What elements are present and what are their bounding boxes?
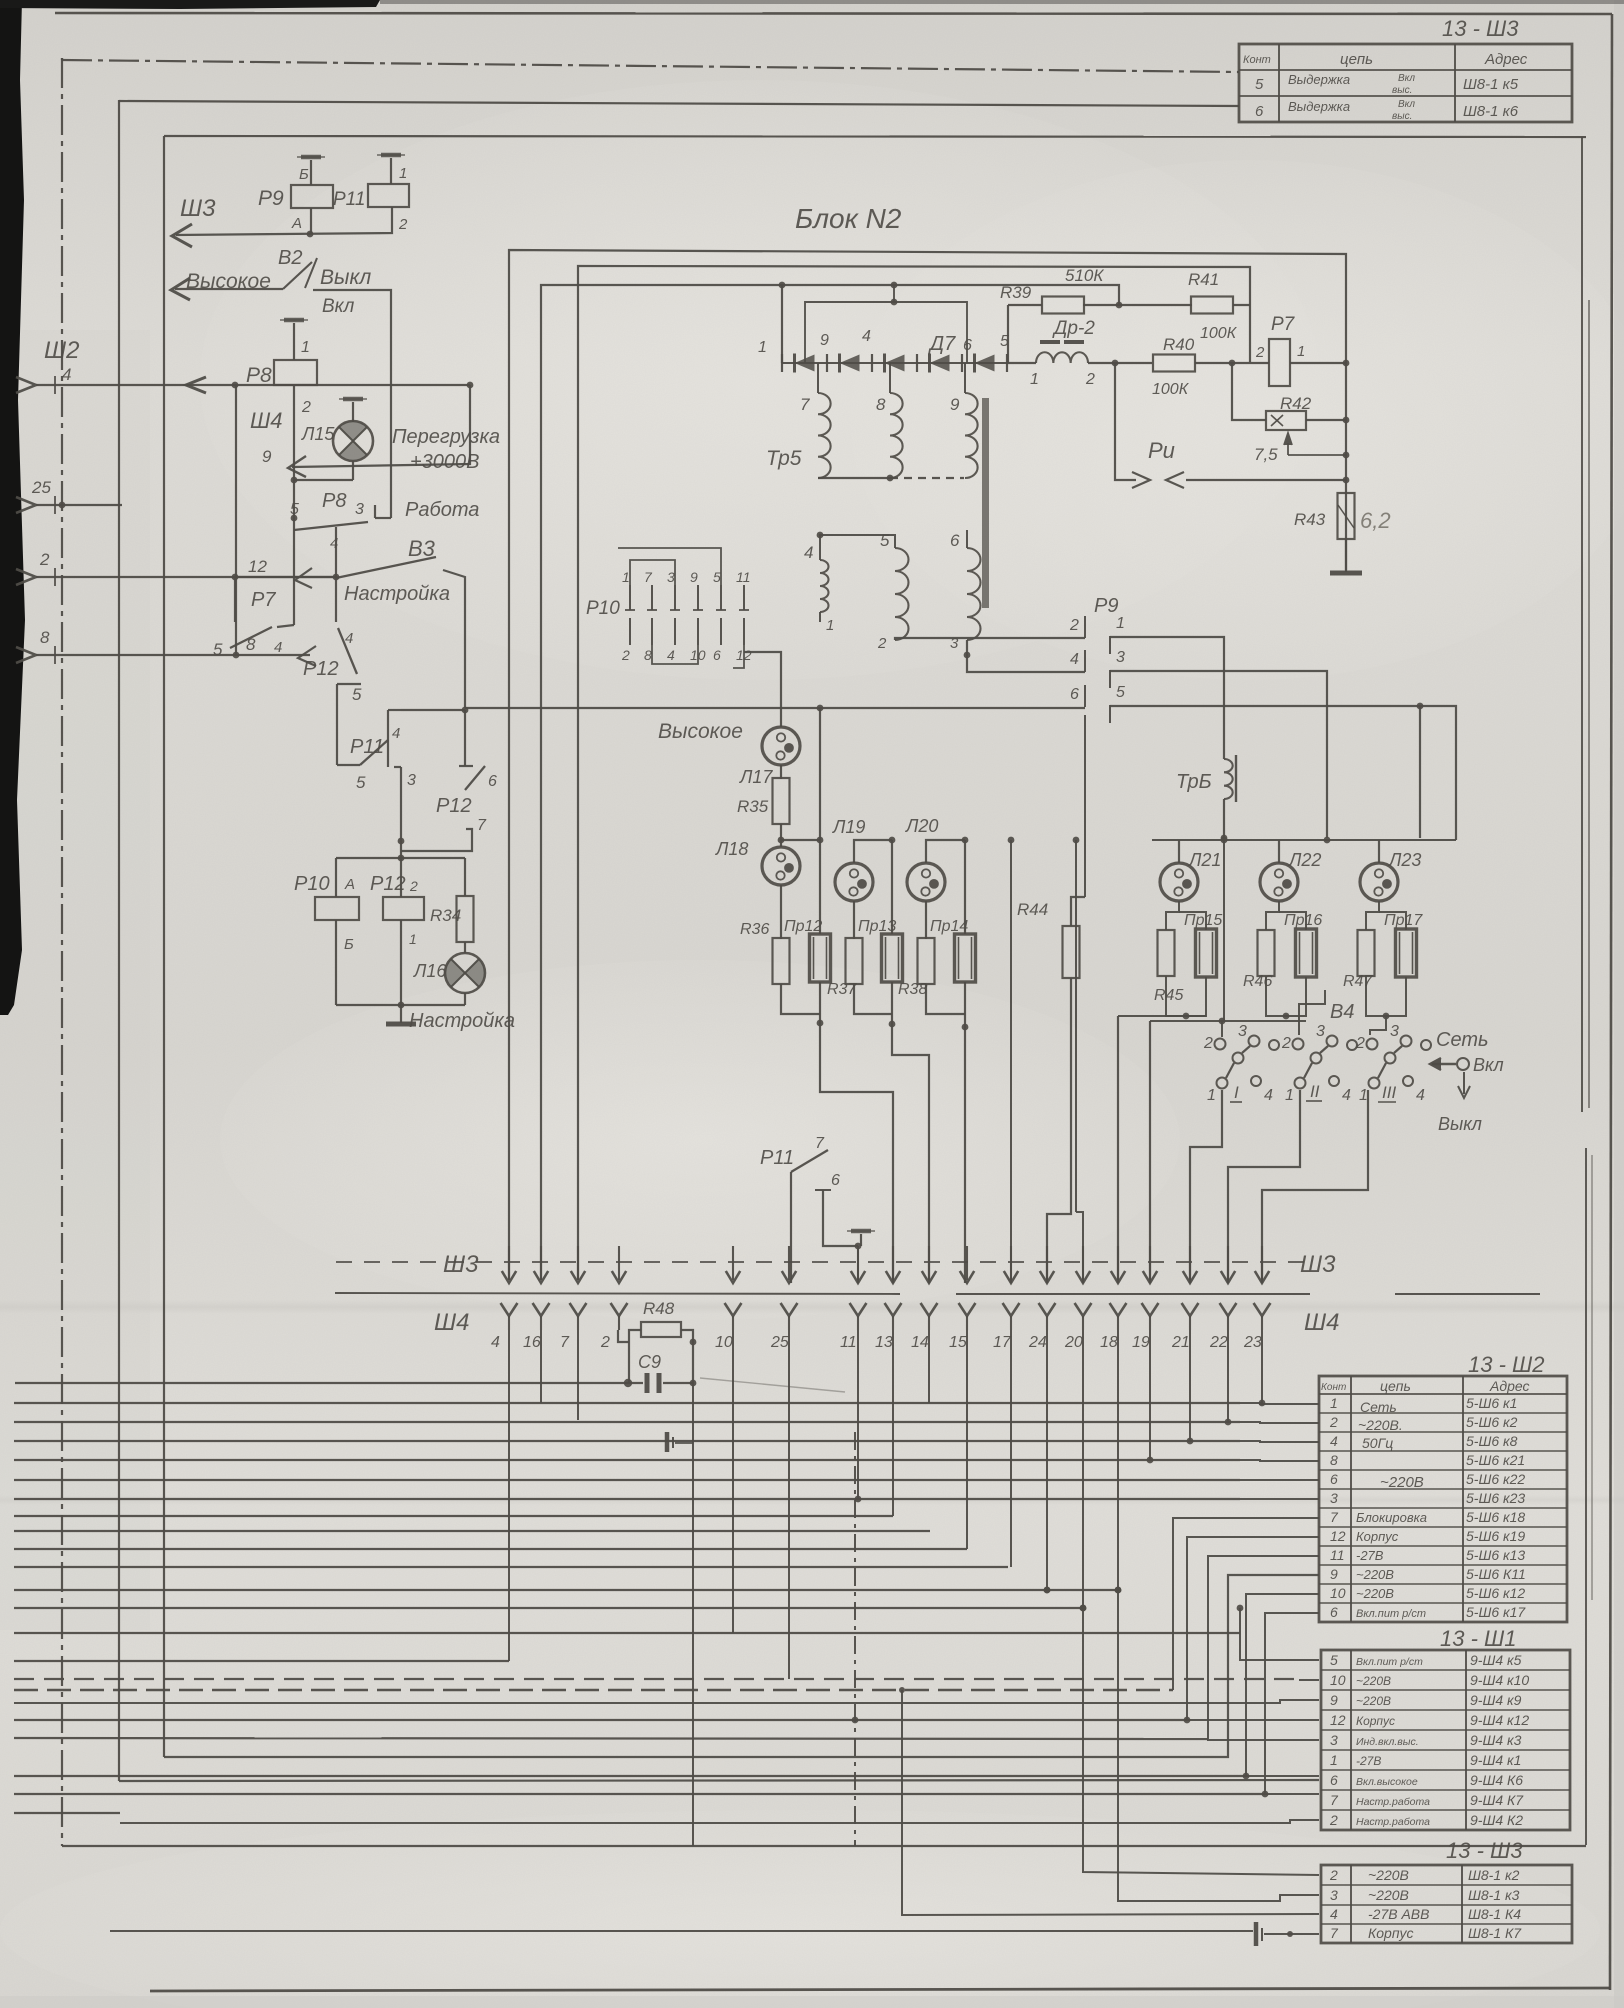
- svg-text:4: 4: [667, 647, 675, 663]
- blade V3: [336, 557, 436, 578]
- svg-text:4: 4: [491, 1334, 500, 1351]
- svg-text:2: 2: [1329, 1867, 1338, 1883]
- svg-text:I: I: [1234, 1083, 1239, 1102]
- wire Tr5 top bottom link: [818, 477, 890, 479]
- bus dashed chassis line 2: [14, 1689, 1173, 1691]
- svg-text:9-Ш4 к10: 9-Ш4 к10: [1470, 1672, 1529, 1688]
- svg-text:Ш8-1 к3: Ш8-1 к3: [1468, 1887, 1520, 1903]
- wire Sh2-4: [36, 384, 470, 386]
- arrowhead Vysokoe: [171, 278, 190, 300]
- svg-text:Р9: Р9: [258, 187, 284, 210]
- svg-text:9: 9: [1330, 1692, 1338, 1708]
- wire Sh4 pin 23 drop: [1261, 1330, 1263, 1403]
- svg-text:4: 4: [804, 543, 813, 562]
- svg-text:5: 5: [356, 773, 366, 792]
- svg-text:2: 2: [600, 1334, 610, 1351]
- svg-text:6: 6: [488, 773, 497, 790]
- svg-text:Р8: Р8: [322, 490, 346, 512]
- svg-text:4: 4: [345, 630, 353, 647]
- wire Tr5-11 link: [819, 612, 821, 622]
- svg-text:100К: 100К: [1200, 325, 1238, 342]
- svg-text:100К: 100К: [1152, 381, 1190, 398]
- svg-text:Пр15: Пр15: [1184, 912, 1222, 929]
- svg-text:Высокое: Высокое: [658, 720, 743, 743]
- svg-text:Р7: Р7: [251, 589, 276, 611]
- svg-text:цепь: цепь: [1380, 1378, 1411, 1394]
- svg-text:3: 3: [1330, 1490, 1338, 1506]
- wire Sh4 pin 7 drop: [577, 1330, 579, 1420]
- svg-text:1: 1: [1116, 615, 1125, 632]
- wire V4 bankI to Sh3: [1190, 1090, 1222, 1283]
- wire R42: [1232, 363, 1266, 420]
- wire P9-3 right: [1110, 671, 1327, 838]
- svg-text:-27В АВВ: -27В АВВ: [1368, 1906, 1429, 1922]
- switch V4 bank III: [1367, 1039, 1378, 1050]
- wire col18 to 13-Sh3 row2: [1118, 1590, 1319, 1901]
- svg-text:Вкл: Вкл: [1398, 99, 1415, 110]
- svg-text:Ш8-1 к6: Ш8-1 к6: [1463, 103, 1519, 120]
- svg-text:20: 20: [1064, 1334, 1083, 1351]
- svg-text:5-Ш6 к23: 5-Ш6 к23: [1466, 1490, 1525, 1506]
- svg-text:510К: 510К: [1065, 266, 1104, 285]
- separator line Sh3/Sh4: [335, 1293, 900, 1294]
- svg-text:3: 3: [407, 772, 416, 789]
- svg-text:В4: В4: [1330, 1001, 1354, 1023]
- page border bottom: [150, 1988, 1610, 1991]
- wire Pr14 to Sh3: [964, 1027, 966, 1283]
- wire Sh4 pin 25 drop: [788, 1330, 790, 1679]
- svg-text:R47: R47: [1343, 973, 1373, 990]
- svg-text:Ш2: Ш2: [44, 337, 79, 364]
- svg-text:Корпус: Корпус: [1368, 1925, 1414, 1941]
- bus line 1698: [14, 1700, 1319, 1703]
- connector Sh3 pin arrow: [1149, 1246, 1151, 1280]
- svg-text:2: 2: [621, 647, 630, 663]
- wire Sh2-2: [36, 576, 336, 578]
- svg-text:5-Ш6 К11: 5-Ш6 К11: [1466, 1566, 1526, 1582]
- svg-text:Сеть: Сеть: [1360, 1399, 1397, 1415]
- svg-text:4: 4: [274, 639, 282, 656]
- svg-text:9: 9: [1330, 1566, 1338, 1582]
- svg-text:10: 10: [715, 1334, 733, 1351]
- wire C9 row: [15, 1382, 643, 1384]
- svg-text:5: 5: [1116, 684, 1125, 701]
- wire vert left chain: [235, 385, 237, 655]
- bus line 1776: [14, 1775, 1246, 1777]
- right edge shading: [1614, 0, 1624, 2008]
- svg-text:III: III: [1382, 1083, 1396, 1102]
- connector Sh3 pin arrow: [618, 1246, 620, 1280]
- ground nastroyka: [400, 1005, 402, 1023]
- svg-text:Адрес: Адрес: [1484, 51, 1528, 68]
- svg-text:Вкл: Вкл: [322, 296, 355, 317]
- arrowhead Sh4-9: [288, 456, 306, 477]
- connector Sh4 pin fork: [1254, 1303, 1271, 1316]
- svg-text:1: 1: [301, 339, 310, 356]
- svg-text:7: 7: [1330, 1792, 1339, 1808]
- wire Tr5-2 to P9-2: [895, 638, 1085, 640]
- svg-text:3: 3: [1238, 1023, 1247, 1040]
- svg-text:выс.: выс.: [1392, 85, 1412, 96]
- svg-text:Пр16: Пр16: [1284, 912, 1322, 929]
- svg-text:Д7: Д7: [928, 333, 956, 355]
- connector Sh3 pin arrow: [1227, 1246, 1229, 1280]
- lamp holder symbol P11: [851, 1229, 871, 1234]
- svg-text:4: 4: [62, 365, 71, 384]
- svg-text:Р12: Р12: [436, 795, 472, 817]
- wire Sh4 pin 18 drop: [1117, 1330, 1119, 1590]
- svg-text:3: 3: [355, 501, 364, 518]
- wires P10 block top: [630, 560, 675, 585]
- svg-text:1: 1: [1359, 1087, 1368, 1104]
- wire diode feed: [781, 285, 783, 363]
- connector Sh4 pin fork: [1039, 1303, 1056, 1316]
- svg-text:R46: R46: [1243, 973, 1272, 990]
- connector Sh4 pin fork: [959, 1303, 976, 1316]
- connector Sh3 pin arrow: [732, 1246, 734, 1280]
- scanner black edge left: [0, 0, 25, 1015]
- svg-text:5-Ш6 к8: 5-Ш6 к8: [1466, 1433, 1518, 1449]
- svg-text:4: 4: [1070, 651, 1079, 668]
- svg-text:25: 25: [770, 1334, 789, 1351]
- svg-text:1: 1: [1285, 1087, 1294, 1104]
- svg-text:7: 7: [1330, 1509, 1339, 1525]
- wire Sh4 pin 21 drop: [1189, 1330, 1191, 1441]
- svg-text:5: 5: [880, 531, 890, 550]
- svg-text:R44: R44: [1017, 900, 1048, 919]
- svg-text:R39: R39: [1000, 283, 1032, 302]
- bus lines lower group: [14, 1632, 1240, 1634]
- wire Sh4 pin 22 drop: [1227, 1330, 1229, 1422]
- page border right: [1610, 14, 1612, 1990]
- svg-text:3: 3: [667, 569, 675, 585]
- svg-text:Вкл.высокое: Вкл.высокое: [1356, 1776, 1418, 1788]
- svg-text:Работа: Работа: [405, 499, 479, 521]
- svg-text:24: 24: [1028, 1334, 1047, 1351]
- wire R48 junction down long: [692, 1383, 694, 1846]
- svg-text:Сеть: Сеть: [1436, 1029, 1489, 1051]
- connector Sh3 pin arrow: [1261, 1246, 1263, 1280]
- connector Sh3 pin arrow: [540, 1246, 542, 1280]
- svg-text:R45: R45: [1154, 987, 1183, 1004]
- wire right lamp bus: [1152, 839, 1456, 841]
- wire Sh3 to P11: [176, 207, 392, 235]
- connector Sh3 pin arrow: [966, 1246, 968, 1280]
- wire Tr5-3 to P9-4: [967, 640, 1085, 672]
- chassis feedthrough symbol near C9: [665, 1432, 670, 1452]
- svg-text:1: 1: [1030, 371, 1039, 388]
- page border top: [55, 13, 1612, 14]
- wire fuse bottoms 2: [854, 984, 892, 1014]
- wires P10 block bottom: [652, 645, 698, 664]
- svg-text:Р11: Р11: [760, 1147, 794, 1169]
- bus line 1931: [110, 1930, 1253, 1932]
- svg-text:14: 14: [911, 1334, 929, 1351]
- wire 1011 col: [1010, 840, 1012, 1283]
- bus lines upper group: [14, 1402, 1240, 1404]
- svg-text:Ш3: Ш3: [180, 195, 216, 222]
- svg-text:Конт: Конт: [1243, 54, 1271, 66]
- wire P8-5 down to P7-4: [293, 530, 295, 625]
- wire to 13-Sh1 row1: [1240, 1608, 1319, 1660]
- svg-text:6: 6: [1330, 1471, 1338, 1487]
- wire choke line: [1007, 362, 1036, 364]
- svg-text:Б: Б: [299, 166, 309, 183]
- wire L17R35 to Pr12 col: [781, 839, 820, 841]
- svg-text:1: 1: [1297, 343, 1305, 360]
- svg-text:Р9: Р9: [1094, 595, 1118, 617]
- svg-text:2: 2: [409, 878, 418, 894]
- svg-text:5-Ш6 к12: 5-Ш6 к12: [1466, 1585, 1525, 1601]
- svg-text:9-Ш4 к9: 9-Ш4 к9: [1470, 1692, 1522, 1708]
- diode bypass box: [805, 302, 967, 363]
- svg-text:Ш4: Ш4: [1304, 1309, 1339, 1336]
- svg-text:~220В: ~220В: [1356, 1567, 1394, 1582]
- svg-text:3: 3: [1330, 1887, 1338, 1903]
- svg-text:3: 3: [1316, 1023, 1325, 1040]
- svg-text:7: 7: [477, 817, 487, 834]
- svg-text:Настр.работа: Настр.работа: [1356, 1816, 1430, 1828]
- svg-text:13 - Ш3: 13 - Ш3: [1446, 1838, 1523, 1863]
- svg-text:2: 2: [1085, 371, 1095, 388]
- svg-text:Вкл.пит р/ст: Вкл.пит р/ст: [1356, 1608, 1426, 1620]
- svg-text:Ш4: Ш4: [250, 408, 282, 433]
- svg-text:А: А: [291, 215, 302, 232]
- svg-text:Пр17: Пр17: [1384, 912, 1423, 929]
- vertical Pr14 col: [964, 840, 966, 934]
- svg-text:6: 6: [950, 531, 960, 550]
- frame wire D left: [163, 136, 165, 1757]
- frame wire B left: [61, 58, 63, 1846]
- svg-text:~220В: ~220В: [1368, 1887, 1409, 1903]
- wire loop top3: [541, 285, 1119, 1280]
- wire col20 to 13-Sh3 row1: [1083, 1608, 1319, 1875]
- connector pin arrow: [16, 377, 36, 393]
- svg-text:1: 1: [622, 569, 630, 585]
- transformer core: [982, 398, 989, 608]
- svg-text:Настройка: Настройка: [344, 583, 450, 605]
- svg-text:13 - Ш1: 13 - Ш1: [1440, 1626, 1517, 1651]
- svg-text:Корпус: Корпус: [1356, 1529, 1399, 1544]
- svg-text:Р12: Р12: [303, 658, 339, 680]
- wire fuse bottoms 1: [781, 984, 820, 1014]
- wire V4 col feed 2: [1324, 990, 1326, 992]
- svg-text:23: 23: [1243, 1334, 1262, 1351]
- vertical Pr13 col: [891, 840, 893, 934]
- svg-text:1: 1: [1330, 1395, 1338, 1411]
- svg-text:1: 1: [826, 617, 834, 634]
- svg-text:Тр5: Тр5: [766, 447, 802, 470]
- resistor R46: [1258, 930, 1275, 976]
- wire L17 column: [744, 652, 781, 727]
- svg-text:4: 4: [1416, 1087, 1425, 1104]
- wire Sh4 pin 11 drop: [857, 1330, 859, 1499]
- svg-text:5-Ш6 к19: 5-Ш6 к19: [1466, 1528, 1525, 1544]
- connector Sh3 pin arrow: [1082, 1246, 1084, 1280]
- connector Sh3 pin arrow: [1010, 1246, 1012, 1280]
- svg-text:Вкл: Вкл: [1398, 73, 1415, 84]
- wire 510K vert: [893, 285, 895, 302]
- svg-text:17: 17: [993, 1334, 1012, 1351]
- wire Vykl bracket: [313, 290, 391, 518]
- svg-text:4: 4: [1342, 1087, 1351, 1104]
- svg-text:2: 2: [301, 399, 311, 416]
- svg-text:9-Ш4 к3: 9-Ш4 к3: [1470, 1732, 1522, 1748]
- wires into V4: [1221, 1021, 1223, 1037]
- svg-text:R40: R40: [1163, 335, 1195, 354]
- connector pin arrow: [16, 497, 36, 513]
- wire Л22 join: [1266, 976, 1306, 1016]
- bus line 1794: [14, 1793, 1265, 1795]
- svg-text:5: 5: [713, 569, 721, 585]
- svg-text:выс.: выс.: [1392, 111, 1412, 122]
- connector pin arrow: [16, 647, 36, 663]
- wire to P8: [293, 323, 295, 360]
- connector Sh4 pin fork: [1075, 1303, 1092, 1316]
- frame wire D right: [1581, 137, 1583, 1112]
- frame wire B bottom: [62, 1845, 1586, 1847]
- bus line 1720: [14, 1719, 1187, 1721]
- svg-text:11: 11: [1330, 1547, 1345, 1563]
- svg-text:~220В.: ~220В.: [1358, 1417, 1403, 1433]
- connector Sh3 pin arrow: [857, 1246, 859, 1280]
- wire Sh2-8: [36, 654, 310, 656]
- wire 1076 col: [1075, 840, 1077, 1212]
- svg-text:8: 8: [1330, 1452, 1338, 1468]
- wire lamp joins to V4 columns: [1118, 1015, 1206, 1017]
- connector Sh3 pin arrow: [928, 1246, 930, 1280]
- arrowhead on Sh2-4 wire: [186, 377, 206, 393]
- svg-text:8: 8: [876, 395, 886, 414]
- bus lines mid group: [14, 1515, 893, 1517]
- wire Sh4 pin 20 drop: [1082, 1330, 1084, 1608]
- svg-text:2: 2: [1069, 617, 1079, 634]
- wire Sh2-25: [36, 504, 122, 506]
- connector Sh4 pin fork: [1220, 1303, 1237, 1316]
- svg-text:Ш8-1 К7: Ш8-1 К7: [1468, 1925, 1522, 1941]
- svg-text:11: 11: [736, 569, 751, 585]
- wire Sh4-9: [292, 385, 470, 467]
- wire to relay boxes: [336, 857, 465, 859]
- svg-text:9: 9: [950, 395, 960, 414]
- wire R39: [1008, 304, 1042, 306]
- svg-text:6,2: 6,2: [1360, 508, 1391, 533]
- svg-text:1: 1: [1207, 1087, 1216, 1104]
- wire R44 down: [1047, 978, 1071, 1283]
- svg-text:Вкл: Вкл: [1473, 1055, 1504, 1075]
- svg-text:Р7: Р7: [1271, 314, 1296, 335]
- svg-text:7: 7: [815, 1135, 825, 1152]
- bus line 1823: [120, 1820, 1319, 1823]
- vertical Pr12 col: [819, 708, 821, 934]
- svg-text:Выдержка: Выдержка: [1288, 72, 1350, 87]
- svg-text:13 - Ш3: 13 - Ш3: [1442, 16, 1519, 41]
- svg-text:4: 4: [1330, 1906, 1338, 1922]
- svg-text:5-Ш6 к21: 5-Ш6 к21: [1466, 1452, 1525, 1468]
- wire Sh4 pin 2 drop: [618, 1329, 620, 1331]
- svg-text:R41: R41: [1188, 270, 1219, 289]
- wire Sh4 pin 24 drop: [1046, 1330, 1048, 1590]
- arrowhead Sh3 wire: [172, 224, 192, 247]
- svg-text:Р8: Р8: [246, 364, 272, 387]
- svg-text:Выкл: Выкл: [1438, 1114, 1482, 1134]
- svg-text:Ш8-1 к2: Ш8-1 к2: [1468, 1867, 1520, 1883]
- R42 wiper arrow: [1284, 433, 1292, 445]
- svg-text:13: 13: [875, 1334, 893, 1351]
- svg-text:16: 16: [523, 1334, 541, 1351]
- connector Sh4 pin fork: [533, 1303, 550, 1316]
- svg-text:5: 5: [213, 640, 223, 659]
- frame wire B top: [62, 60, 1239, 72]
- svg-text:3: 3: [1390, 1023, 1399, 1040]
- svg-text:1: 1: [409, 931, 417, 947]
- wire loop top1: [509, 250, 1346, 1280]
- arrow Set Vykl: [1463, 1072, 1465, 1094]
- svg-text:С9: С9: [638, 1352, 661, 1372]
- wire P11-4 to right column: [401, 709, 465, 711]
- svg-text:Л20: Л20: [905, 816, 938, 836]
- svg-text:12: 12: [1330, 1712, 1346, 1728]
- frame wire C bottom: [119, 1780, 1319, 1781]
- svg-text:6: 6: [831, 1172, 840, 1189]
- wire bottom nastroyka: [336, 1004, 465, 1006]
- svg-text:Р10: Р10: [294, 873, 330, 895]
- svg-text:9: 9: [690, 569, 698, 585]
- svg-text:Л18: Л18: [715, 839, 748, 859]
- svg-text:Настройка: Настройка: [409, 1010, 515, 1032]
- svg-text:2: 2: [1355, 1035, 1365, 1052]
- svg-text:21: 21: [1171, 1334, 1190, 1351]
- svg-text:4: 4: [862, 328, 871, 345]
- wire Pr13 jog to Sh3: [892, 1024, 929, 1283]
- svg-text:+3000В: +3000В: [410, 451, 480, 473]
- svg-text:7: 7: [560, 1334, 570, 1351]
- svg-text:13 - Ш2: 13 - Ш2: [1468, 1352, 1545, 1377]
- connector Sh3 pin arrow: [577, 1246, 579, 1280]
- svg-text:5: 5: [1330, 1652, 1338, 1668]
- svg-text:Ш3: Ш3: [1300, 1251, 1336, 1278]
- bus line 1813: [14, 1812, 120, 1814]
- transformer Tr5 windings bottom: [820, 560, 829, 612]
- svg-text:7: 7: [1330, 1925, 1339, 1941]
- bus line 1738: [14, 1738, 1208, 1739]
- wire Tr5 sec top: [820, 535, 895, 560]
- svg-text:2: 2: [1329, 1414, 1338, 1430]
- svg-text:4: 4: [392, 725, 400, 742]
- svg-text:4: 4: [1264, 1087, 1273, 1104]
- svg-text:9-Ш4 К6: 9-Ш4 К6: [1470, 1772, 1523, 1788]
- wire Vysokoe switch blade: [175, 288, 283, 290]
- U-link wires between tables: [1187, 1537, 1319, 1720]
- svg-text:19: 19: [1132, 1334, 1150, 1351]
- svg-text:Адрес: Адрес: [1489, 1378, 1530, 1394]
- svg-text:~220В: ~220В: [1356, 1694, 1391, 1708]
- wire row to P9-6: [465, 707, 1085, 709]
- svg-text:1: 1: [758, 339, 767, 356]
- frame wire D top: [164, 136, 1586, 137]
- svg-text:Л15: Л15: [301, 424, 335, 444]
- svg-text:5-Ш6 к1: 5-Ш6 к1: [1466, 1395, 1517, 1411]
- connector Sh4 pin fork: [1142, 1303, 1159, 1316]
- svg-text:Др-2: Др-2: [1052, 318, 1095, 339]
- svg-text:Л19: Л19: [832, 817, 865, 837]
- connector Sh4 pin fork: [725, 1303, 742, 1316]
- svg-text:Корпус: Корпус: [1356, 1714, 1395, 1728]
- connector Sh4 pin fork: [885, 1303, 902, 1316]
- wire P9-1 to Tr6: [1110, 637, 1224, 759]
- resistor R47: [1358, 930, 1375, 976]
- frame wire C left: [118, 100, 120, 1781]
